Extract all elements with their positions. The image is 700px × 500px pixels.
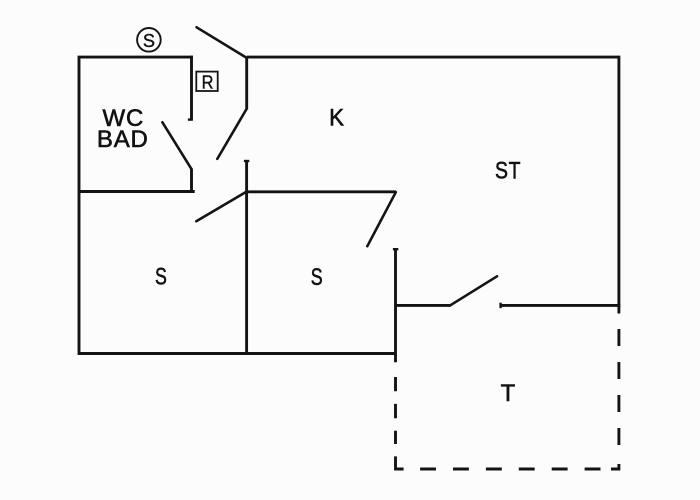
svg-text:BAD: BAD <box>97 126 149 153</box>
svg-text:T: T <box>501 380 516 407</box>
svg-text:S: S <box>143 31 155 51</box>
svg-text:ST: ST <box>495 156 521 183</box>
svg-text:S: S <box>155 264 167 290</box>
svg-text:K: K <box>329 104 345 131</box>
svg-text:R: R <box>202 71 214 92</box>
svg-text:S: S <box>311 265 323 291</box>
